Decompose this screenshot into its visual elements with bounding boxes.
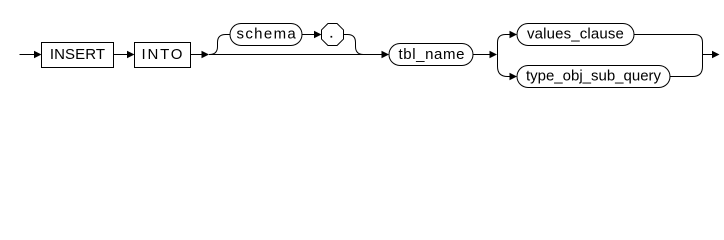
wire: branch curve up to schema row — [210, 35, 231, 55]
arrowhead into tbl_name — [382, 51, 390, 59]
svg-text:INTO: INTO — [142, 46, 185, 63]
arrowhead after INTO — [202, 51, 210, 59]
wire: entry line — [20, 54, 35, 56]
arrowhead into type_obj_sub_query — [510, 73, 518, 81]
terminal circle . — [322, 24, 344, 46]
wire: bypass main line under schema branch — [209, 54, 382, 56]
wire: split down to type_obj_sub_query row — [498, 55, 511, 77]
svg-text:values_clause: values_clause — [527, 26, 624, 43]
arrowhead into values_clause — [510, 31, 518, 39]
wire: schema to dot — [302, 34, 315, 36]
keyword box INTO — [135, 43, 191, 68]
wire: INTO to branch junction — [191, 54, 203, 56]
arrowhead into INSERT — [34, 51, 42, 59]
arrowhead exit — [712, 51, 720, 59]
wire: curve down from dot to main line — [344, 35, 364, 55]
wire: tbl_name to split — [473, 54, 490, 56]
oval values_clause — [517, 24, 634, 46]
wire: INSERT to INTO — [114, 54, 128, 56]
arrowhead into dot — [314, 31, 322, 39]
svg-text:schema: schema — [236, 26, 297, 43]
wire: values_clause row to merge — [634, 35, 703, 55]
arrowhead into split junction — [490, 51, 498, 59]
wire: type_obj_sub_query row to merge — [670, 55, 703, 77]
wire: split up to values_clause row — [498, 35, 511, 55]
arrowhead into INTO — [127, 51, 135, 59]
keyword box INSERT — [42, 43, 114, 68]
svg-text:tbl_name: tbl_name — [399, 46, 466, 63]
wire: merge to exit — [703, 54, 713, 56]
svg-text:type_obj_sub_query: type_obj_sub_query — [526, 68, 662, 85]
oval tbl_name — [389, 44, 473, 66]
oval schema — [230, 24, 302, 46]
svg-text:INSERT: INSERT — [50, 46, 105, 63]
oval type_obj_sub_query — [517, 66, 670, 88]
